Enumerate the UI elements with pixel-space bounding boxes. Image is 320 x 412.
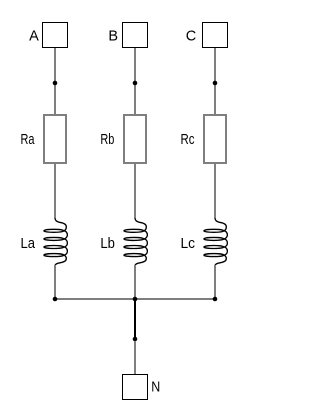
svg-text:Lc: Lc xyxy=(181,236,196,252)
svg-text:Lb: Lb xyxy=(100,236,115,252)
svg-text:La: La xyxy=(21,236,36,252)
svg-text:B: B xyxy=(108,28,118,44)
svg-text:Rc: Rc xyxy=(181,132,195,148)
svg-text:Ra: Ra xyxy=(21,132,36,148)
svg-text:A: A xyxy=(29,28,39,44)
svg-text:N: N xyxy=(151,380,160,396)
svg-text:C: C xyxy=(186,28,196,44)
svg-text:Rb: Rb xyxy=(100,132,114,148)
